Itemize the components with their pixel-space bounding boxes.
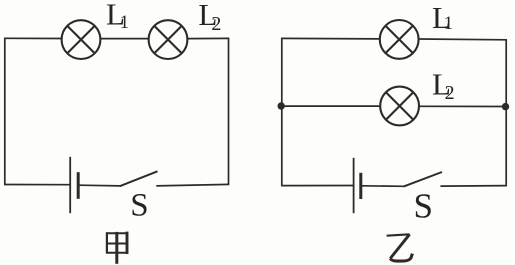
- switch S blade: [404, 172, 443, 187]
- label S: [414, 187, 433, 226]
- wire bottom-left segment: [4, 184, 70, 186]
- wire middle-right segment: [420, 105, 506, 107]
- lamp L1: [62, 20, 101, 59]
- svg-text:2: 2: [211, 13, 221, 35]
- wire top-left segment: [281, 37, 379, 40]
- svg-text:1: 1: [120, 13, 129, 33]
- lamp L2: [149, 20, 188, 59]
- lamp L2: [380, 87, 419, 126]
- wire right vertical: [228, 38, 230, 184]
- wire switch right contact: [156, 184, 229, 186]
- wire top-right segment: [188, 37, 229, 39]
- label L2: [432, 66, 455, 103]
- wire battery to switch: [80, 184, 121, 187]
- node right junction: [502, 103, 509, 110]
- wire between L1 and L2: [101, 38, 148, 40]
- lamp L1: [380, 20, 419, 59]
- wire middle-left segment: [281, 105, 379, 107]
- label yi: [387, 234, 413, 261]
- svg-text:S: S: [414, 187, 433, 226]
- wire left vertical: [4, 38, 6, 184]
- battery: [354, 158, 361, 213]
- label L1: [432, 0, 453, 35]
- label L2: [198, 0, 221, 35]
- wire top-left segment: [4, 37, 61, 39]
- label S: [130, 188, 148, 224]
- svg-text:2: 2: [445, 82, 455, 104]
- svg-text:S: S: [130, 188, 148, 224]
- node left junction: [278, 102, 285, 109]
- svg-text:1: 1: [444, 14, 453, 34]
- wire top-right segment: [419, 38, 507, 41]
- battery: [70, 157, 78, 213]
- wire switch right contact: [440, 185, 507, 188]
- wire battery to switch: [362, 185, 404, 188]
- wire right vertical: [505, 40, 507, 186]
- switch S blade: [120, 171, 158, 186]
- label jia: [106, 232, 127, 264]
- wire bottom-left segment: [281, 185, 353, 187]
- wire left vertical: [281, 38, 283, 185]
- label L1: [106, 0, 129, 33]
